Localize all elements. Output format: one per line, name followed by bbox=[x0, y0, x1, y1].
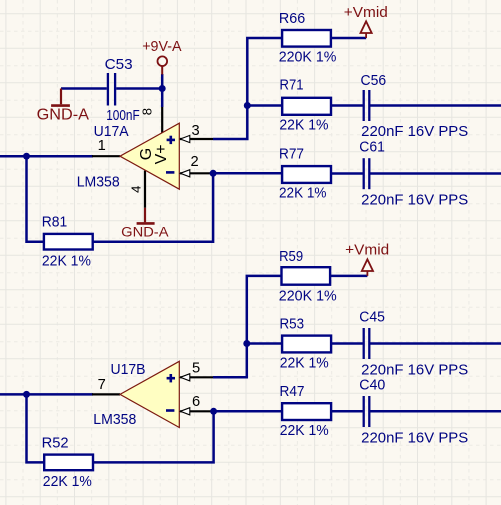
svg-text:C61: C61 bbox=[359, 139, 385, 155]
svg-text:C45: C45 bbox=[359, 309, 385, 325]
svg-text:LM358: LM358 bbox=[93, 412, 136, 428]
svg-text:220nF 16V PPS: 220nF 16V PPS bbox=[361, 362, 468, 378]
svg-text:7: 7 bbox=[98, 377, 106, 393]
svg-text:22K 1%: 22K 1% bbox=[42, 254, 91, 270]
svg-text:22K 1%: 22K 1% bbox=[43, 474, 92, 490]
svg-text:V+: V+ bbox=[153, 144, 170, 164]
svg-text:5: 5 bbox=[192, 361, 200, 377]
svg-text:220K 1%: 220K 1% bbox=[279, 50, 337, 66]
svg-text:22K 1%: 22K 1% bbox=[279, 118, 328, 134]
svg-text:8: 8 bbox=[139, 108, 154, 115]
svg-text:R59: R59 bbox=[279, 249, 303, 265]
svg-text:22K 1%: 22K 1% bbox=[280, 423, 329, 439]
svg-text:LM358: LM358 bbox=[77, 174, 120, 190]
svg-text:3: 3 bbox=[192, 123, 200, 139]
svg-text:R77: R77 bbox=[279, 147, 304, 163]
svg-text:GND-A: GND-A bbox=[121, 224, 169, 240]
svg-text:22K 1%: 22K 1% bbox=[279, 186, 327, 202]
svg-text:1: 1 bbox=[98, 138, 106, 154]
svg-text:+Vmid: +Vmid bbox=[345, 242, 389, 258]
svg-text:C40: C40 bbox=[359, 378, 385, 394]
svg-text:C56: C56 bbox=[361, 73, 387, 89]
svg-text:R52: R52 bbox=[42, 435, 69, 451]
svg-text:R53: R53 bbox=[280, 316, 305, 332]
svg-text:R71: R71 bbox=[280, 78, 304, 94]
svg-text:4: 4 bbox=[128, 186, 143, 193]
svg-text:220nF 16V PPS: 220nF 16V PPS bbox=[361, 431, 468, 447]
svg-text:R81: R81 bbox=[42, 214, 67, 230]
svg-text:GND-A: GND-A bbox=[37, 106, 90, 123]
svg-text:22K 1%: 22K 1% bbox=[280, 356, 329, 372]
svg-text:220nF 16V PPS: 220nF 16V PPS bbox=[361, 192, 468, 208]
svg-text:100nF: 100nF bbox=[106, 108, 140, 124]
svg-text:220K 1%: 220K 1% bbox=[279, 289, 337, 305]
svg-text:220nF 16V PPS: 220nF 16V PPS bbox=[361, 124, 468, 140]
svg-text:R66: R66 bbox=[279, 11, 305, 27]
svg-text:+9V-A: +9V-A bbox=[142, 39, 181, 55]
svg-text:C53: C53 bbox=[105, 57, 133, 73]
svg-text:R47: R47 bbox=[280, 384, 305, 400]
svg-text:2: 2 bbox=[191, 154, 199, 170]
svg-text:+Vmid: +Vmid bbox=[344, 5, 388, 21]
svg-text:U17B: U17B bbox=[111, 362, 146, 378]
svg-text:6: 6 bbox=[192, 394, 200, 410]
